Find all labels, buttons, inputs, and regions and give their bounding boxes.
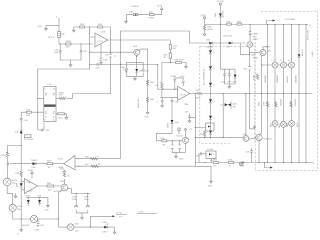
svg-text:1N4007: 1N4007 [281, 98, 283, 106]
label LM x147 [138, 98, 140, 108]
svg-text:GND: GND [37, 26, 42, 28]
capacitor C5 bank [221, 74, 226, 84]
ground lower bus end [113, 227, 116, 234]
svg-text:TVS08: TVS08 [31, 160, 38, 162]
wire y137 [195, 137, 243, 138]
wire y93 junctions [261, 93, 306, 94]
resistor R30 x170 [169, 45, 177, 50]
resistor R22 on earth bus [229, 160, 234, 168]
label N terminal [306, 25, 311, 28]
resistor R28 output [47, 183, 54, 191]
diode string x210 [210, 43, 212, 138]
svg-text:1N4148: 1N4148 [302, 48, 304, 56]
wire top bus L [250, 24, 306, 25]
transistor Q5 [177, 136, 189, 144]
lamp L9 sense [242, 33, 259, 48]
connector small box x25 [24, 135, 34, 141]
ground x21 bottom [18, 219, 23, 236]
junction bus tee [58, 218, 59, 219]
resistor R6 to ground [203, 25, 213, 34]
diode D3 inline [223, 35, 233, 48]
plugbar rail 4 [291, 24, 292, 163]
junction node B [80, 43, 81, 44]
rotated label surge module [203, 68, 206, 85]
dashed box plugbar [255, 11, 317, 170]
label 1N4007 mid [281, 98, 283, 106]
diode D14 string [209, 130, 213, 134]
wire x219 drop [219, 25, 221, 70]
wire Q3 base [249, 52, 260, 53]
svg-text:400R: 400R [208, 29, 213, 31]
label 12Vdc out [116, 211, 157, 218]
bus lower y227 [59, 226, 115, 228]
op-amp U1A power cap [100, 44, 109, 64]
wire Q2 emitter [258, 141, 259, 163]
wire opto U5 bottom [210, 159, 212, 163]
wire sense to Q2 [249, 93, 254, 129]
svg-text:PLUG 400: PLUG 400 [308, 29, 310, 40]
wire regulator base y52 [89, 52, 134, 53]
svg-text:PLUGBAR: PLUGBAR [285, 18, 296, 21]
svg-text:TL071: TL071 [58, 158, 65, 160]
resistor R29 Q6 collector [63, 172, 70, 184]
LED D5 regulator [121, 67, 128, 72]
wire U2 right pin1 [56, 94, 72, 99]
wire bus y24 [205, 24, 251, 26]
wire U3 output [190, 93, 313, 95]
lamp L2 on bus [22, 215, 45, 226]
svg-text:R08A: R08A [66, 40, 72, 43]
wire x162 column [161, 63, 163, 98]
label E terminal [313, 163, 315, 165]
capacitor C14 above U3 [171, 75, 186, 90]
diode D8 TVS [31, 160, 38, 169]
capacitor C17 opto left [196, 152, 207, 162]
capacitor C3 on output branch [105, 40, 117, 94]
resistor FR1 on fuse line [149, 12, 155, 20]
wire y166 tail and ground [195, 166, 212, 187]
svg-text:1N4007: 1N4007 [295, 98, 297, 106]
wire feedback top [74, 27, 111, 40]
wire input vertical [58, 18, 60, 44]
wire U2 left pin2 [21, 112, 44, 113]
ground x186 [185, 66, 188, 68]
svg-text:R08 400K: R08 400K [175, 60, 185, 62]
op-amp U1B left-pointing [58, 156, 76, 170]
power flag on fuse line end [157, 6, 163, 15]
svg-text:1N08: 1N08 [168, 122, 170, 128]
capacitor C13 stub [171, 98, 180, 120]
wire main input horizontal [59, 43, 93, 45]
svg-text:GND: GND [179, 158, 184, 160]
label MOV right [297, 122, 299, 127]
wire y93 to cap branch [72, 93, 110, 95]
wire U3 noninverting [160, 97, 178, 99]
optocoupler U4 [206, 123, 215, 131]
capacitor C12 stub [157, 98, 164, 108]
junction x120 y64 [120, 64, 121, 65]
svg-text:BC546: BC546 [177, 136, 184, 138]
wire op-amp1 output [108, 39, 171, 41]
svg-text:TL071: TL071 [97, 41, 104, 43]
resistor R16 zigzag x162 [156, 82, 164, 89]
wire Q3 emitter down [253, 55, 263, 134]
wire x120 long vertical [119, 31, 121, 159]
plugbar rail 3 [283, 24, 284, 163]
diode D15 rail5 [297, 48, 314, 58]
resistor R27 x21 [16, 171, 23, 177]
lamp L6 row2 [271, 121, 278, 127]
diode D16 x21 [17, 182, 24, 187]
fuse F1 [129, 6, 140, 16]
ground left of feedback [72, 27, 75, 32]
junction x21 bus [21, 218, 22, 219]
svg-text:WR: WR [173, 48, 177, 50]
svg-text:VD08: VD08 [28, 170, 34, 172]
capacitor C23 branch [84, 196, 90, 207]
svg-text:C08A: C08A [171, 75, 177, 78]
diode D9 string [209, 50, 216, 54]
svg-text:2N08: 2N08 [60, 181, 66, 183]
wire U6 output [38, 185, 61, 187]
junction y64 [89, 64, 90, 65]
IC U2 dark band [44, 104, 56, 107]
svg-text:out08: out08 [138, 211, 144, 214]
optocoupler U5 [206, 149, 216, 162]
resistor R26 mid x291 [290, 102, 292, 107]
wire Q5 collector flag [184, 128, 193, 137]
wire sense chain upper [249, 25, 251, 42]
wire Q6 right branch [68, 189, 90, 218]
capacitor C16 [178, 145, 181, 149]
label right column [308, 29, 310, 40]
wire top loop to rectifier [120, 31, 249, 55]
transistor Q4 regulator [133, 46, 140, 56]
ground under R6 [203, 34, 206, 36]
svg-text:LAMP: LAMP [253, 33, 259, 36]
label R col x259 [259, 101, 261, 106]
junction on feedback [89, 26, 90, 27]
capacitor C15 [167, 145, 174, 149]
capacitor C22 branch [72, 196, 78, 207]
lamp L10 on lower bus [67, 224, 79, 233]
resistor R18 relay base [156, 138, 182, 146]
resistor R12 TVS line [47, 161, 53, 169]
junction rectifier drop [210, 42, 221, 43]
label PLUGBAR [285, 18, 296, 21]
resistor R14 zigzag bottom line [85, 164, 101, 167]
diode D1 on VCC drop [215, 9, 224, 24]
power flag 2 [201, 15, 207, 25]
junction VCC bus [220, 24, 221, 25]
wire U1B input top [75, 158, 120, 159]
snubber loop wires [60, 44, 81, 65]
lamp L1 left [9, 204, 23, 211]
lamp L8 row2 [287, 121, 294, 127]
LED D19 [37, 195, 42, 203]
diode D7 x21 [15, 129, 23, 133]
diode D2 inline [206, 40, 214, 49]
lamp L4 row1 [280, 60, 286, 68]
capacitor C21 x254 [253, 125, 256, 129]
wire x7 branch [7, 145, 21, 152]
wire U6 inputs [21, 181, 24, 190]
svg-text:1N4007: 1N4007 [206, 46, 214, 48]
varistor RV1 [3, 178, 17, 186]
svg-text:AC PLUGBAR 8X: AC PLUGBAR 8X [203, 68, 206, 85]
arrow connector bottom [264, 162, 273, 169]
triac Q7 [220, 93, 237, 138]
resistor R5 on bus y24 [237, 21, 242, 25]
label col 287 [287, 75, 289, 83]
capacitor C8 under U2 [41, 129, 50, 132]
svg-text:TL071: TL071 [180, 95, 187, 97]
svg-text:1N4007: 1N4007 [287, 75, 289, 83]
svg-text:W: W [97, 157, 99, 159]
arrow connector top [267, 19, 276, 24]
diode D12 string [209, 99, 216, 103]
diode D6 regulator [135, 69, 143, 73]
resistor R20 under opto [200, 131, 206, 138]
wire U3 inverting [157, 64, 177, 89]
TVS wire y163 [7, 162, 64, 165]
wire cap bank top [220, 69, 235, 86]
svg-text:MJE3055: MJE3055 [264, 138, 274, 140]
capacitor C20 near Q2 [246, 148, 253, 163]
flag end x147 [145, 112, 150, 118]
resistor R25 mid x275 [275, 102, 277, 107]
wire under varistor [7, 186, 13, 204]
wire x21 long vertical [20, 112, 22, 219]
power flag Q6 [60, 168, 66, 172]
wire U1B input bottom [75, 166, 195, 167]
transistor Q1 [243, 93, 249, 141]
junction 12V tap [90, 227, 91, 228]
wire regulator loop [126, 62, 143, 78]
lamp L7 row2 [279, 121, 286, 128]
ground cap bank [228, 86, 231, 88]
plugbar rail 2 [274, 24, 275, 163]
label 1N4007 mid2 [295, 98, 297, 106]
resistor R1A on input wire [66, 40, 72, 48]
resistor R13 zigzag top line [85, 157, 99, 160]
capacitor C9 U2 right [58, 113, 65, 120]
inductor RFIL A [48, 32, 65, 40]
resistor R23 col x257 [254, 74, 259, 80]
wire x170 drop [170, 40, 171, 63]
capacitor C11 below bus [35, 219, 41, 232]
wire Q4 emitter [136, 55, 137, 62]
svg-text:C08u: C08u [35, 230, 41, 232]
svg-text:LED: LED [17, 209, 22, 211]
resistor R7 x147 [146, 80, 154, 85]
wire y64 bus [90, 64, 158, 66]
resistor R31 x170 [164, 53, 172, 59]
svg-text:RFIL A: RFIL A [48, 36, 55, 39]
resistor R19 stub [178, 128, 180, 134]
resistor R21 on earth bus [213, 160, 218, 168]
wire fuse line arrow [125, 15, 162, 23]
diode D11 string [209, 83, 216, 87]
LED D18 [26, 195, 31, 203]
svg-text:1W: 1W [98, 164, 101, 166]
diode D20 chain [156, 120, 179, 141]
capacitor C2 in snubber right [80, 51, 88, 53]
svg-text:400R: 400R [254, 75, 256, 80]
svg-text:LA08: LA08 [311, 51, 314, 57]
junction node A [60, 43, 61, 44]
ground x15 [14, 193, 17, 198]
resistor R4 on bus y24 [227, 21, 232, 25]
svg-text:VL08: VL08 [157, 6, 163, 8]
wire Q4 collector [139, 49, 148, 112]
svg-text:400R: 400R [59, 92, 64, 94]
svg-text:TRI: TRI [233, 106, 237, 108]
capacitor C10 x21 [19, 118, 28, 121]
wire lamp to bus [13, 211, 59, 219]
resistor R8 x147 [146, 97, 154, 102]
svg-text:U?A: U?A [101, 31, 106, 34]
wire inverting input [90, 27, 95, 37]
svg-text:RV08: RV08 [12, 180, 18, 182]
resistor R17 output 100R [196, 90, 203, 100]
label col 266 [265, 74, 267, 83]
resistor R15 feedback 400K [162, 60, 186, 66]
ground LED pair [45, 205, 50, 211]
wire 12Vdc out [91, 215, 115, 227]
resistor R10 U2 right [59, 92, 66, 99]
svg-text:1N4007: 1N4007 [223, 9, 225, 17]
dashed box surge module [200, 46, 255, 143]
svg-text:2N08: 2N08 [253, 58, 259, 60]
ground under snubber [69, 65, 72, 67]
svg-text:MOV08: MOV08 [22, 225, 30, 227]
label col 277 [277, 74, 279, 83]
wire sense chain lower [249, 47, 256, 93]
ground U2 right [65, 118, 68, 120]
LED D17 on lower bus [103, 222, 109, 233]
lamp L5 row1 [288, 60, 294, 68]
wire U2 right pin2 [56, 114, 66, 118]
IC U2 pin marks [45, 94, 55, 117]
ground GND left of input [37, 26, 59, 31]
capacitor C18 on earth bus [241, 161, 246, 168]
wire left riser x89 [89, 27, 91, 69]
resistor R11 x7 [1, 152, 8, 178]
svg-text:400R: 400R [253, 39, 258, 41]
resistor R9 on pin2 wire [27, 109, 32, 117]
earth bus y162 [195, 162, 312, 163]
wire Q6 emitter [59, 190, 63, 227]
svg-text:LM08 400: LM08 400 [138, 98, 140, 108]
node IN label [56, 17, 58, 19]
ground regulator [134, 78, 137, 80]
transistor Q6 [54, 181, 68, 193]
ground branch pair [81, 218, 84, 220]
diode D13 string [209, 116, 216, 120]
wire x195 riser [195, 93, 206, 166]
wire U2 left pin1 [37, 98, 44, 99]
power flag VCC top right [217, 1, 225, 13]
capacitor C1 in snubber left [55, 50, 62, 55]
capacitor C6 bank [227, 74, 232, 84]
svg-text:LED: LED [103, 231, 108, 233]
svg-text:PC08: PC08 [208, 149, 214, 151]
svg-text:out: out [119, 215, 122, 218]
op-amp U1A [95, 31, 108, 48]
svg-text:MOV: MOV [297, 122, 299, 127]
resistor R3 feedback right [98, 24, 103, 28]
svg-text:FR08: FR08 [149, 18, 155, 20]
svg-text:C08 471K: C08 471K [223, 35, 233, 37]
wire LED pair top [26, 197, 48, 205]
label col 296 [296, 74, 298, 83]
svg-text:PULP08N: PULP08N [24, 139, 34, 141]
plugbar rail 5 [298, 24, 299, 163]
transistor Q3 [260, 49, 272, 55]
wire Q5 base loop [172, 140, 186, 156]
op-amp U6 bottom left [24, 179, 37, 194]
power flag U6 [28, 170, 34, 178]
capacitor C4 series in y64 bus [96, 63, 102, 69]
svg-text:TL071: TL071 [26, 191, 33, 193]
resistor R2 feedback left [80, 24, 85, 28]
zener D4 bank [233, 75, 238, 84]
plugbar rail 6 [305, 24, 306, 163]
resistor R24 mid x267 [264, 101, 269, 107]
IC U2 box [44, 84, 56, 122]
svg-text:LEDB08: LEDB08 [277, 74, 279, 83]
earth terminal left [239, 162, 243, 166]
svg-text:FUSE08: FUSE08 [131, 6, 140, 8]
svg-text:U?A: U?A [26, 181, 31, 184]
svg-text:LEDB08: LEDB08 [296, 74, 298, 83]
ground GND text [175, 156, 184, 160]
capacitor C24 stub x189 [185, 104, 196, 123]
capacitor C7 regulator [142, 70, 150, 73]
svg-text:100R: 100R [196, 97, 201, 99]
plugbar rail 1 [267, 24, 268, 163]
op-amp U3 [178, 86, 190, 100]
svg-text:SC08: SC08 [17, 206, 23, 208]
wire Q3 collector [263, 46, 270, 49]
transistor Q2 [256, 134, 273, 140]
diode D10 string [209, 66, 216, 70]
lamp L3 row1 [262, 60, 292, 68]
capacitor C19 sense [243, 67, 251, 71]
svg-text:VC08: VC08 [201, 15, 207, 17]
wire U2 bottom pin to cap [38, 112, 44, 130]
svg-text:LEDB08: LEDB08 [265, 74, 267, 83]
svg-text:10K: 10K [162, 144, 166, 146]
wire corner x37 [38, 69, 90, 112]
wire Q1 emitter to Q2 [249, 138, 256, 140]
